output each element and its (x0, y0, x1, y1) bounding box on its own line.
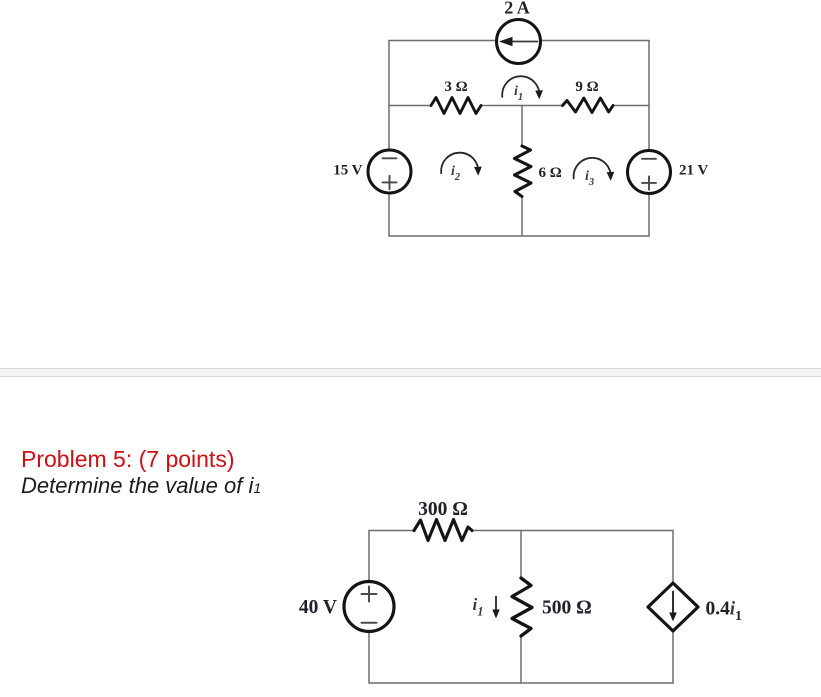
wire middle vertical lower (520, 636, 522, 683)
wire middle horizontal center (481, 105, 562, 107)
wire top-right segment (541, 40, 649, 42)
svg-text:i3: i3 (585, 169, 594, 188)
wire top segment right (472, 530, 673, 532)
resistor 9ohm (563, 98, 614, 113)
15V minus sign (383, 157, 397, 159)
wire bottom (369, 682, 673, 684)
21V plus sign (642, 176, 656, 189)
wire middle vertical upper (521, 106, 523, 147)
svg-text:9 Ω: 9 Ω (575, 79, 598, 95)
21V minus sign (642, 158, 656, 160)
wire right vertical upper (672, 531, 674, 584)
wire left vertical upper (388, 41, 390, 150)
svg-text:40 V: 40 V (299, 597, 337, 618)
voltage source 21V circle (628, 151, 671, 194)
wire top-left segment (389, 40, 496, 42)
voltage source 40V circle (344, 582, 394, 632)
svg-text:2 A: 2 A (504, 0, 530, 18)
svg-text:0.4i1: 0.4i1 (706, 599, 743, 625)
svg-text:i1: i1 (473, 595, 484, 619)
40V plus sign (362, 587, 377, 602)
wire right vertical upper (648, 41, 650, 151)
resistor 300ohm (414, 520, 472, 541)
svg-text:3 Ω: 3 Ω (444, 79, 467, 95)
resistor 3ohm (431, 98, 481, 114)
current source 2A circle (497, 20, 541, 64)
dependent source arrow (669, 592, 677, 622)
svg-text:21 V: 21 V (679, 163, 708, 179)
svg-text:i1: i1 (514, 84, 523, 103)
svg-text:i2: i2 (451, 164, 461, 183)
wire left vertical lower (388, 194, 390, 237)
voltage source 15V circle (368, 150, 411, 193)
wire left vertical upper (368, 531, 370, 582)
15V plus sign (383, 176, 397, 189)
mesh arrow i1 (502, 76, 543, 99)
wire middle vertical lower (521, 197, 523, 237)
svg-text:6 Ω: 6 Ω (539, 165, 562, 181)
wire right vertical lower (648, 194, 650, 236)
heading: Determine the value of i1 (21, 475, 261, 499)
arrow i1 down (492, 597, 499, 619)
svg-text:15 V: 15 V (333, 163, 362, 179)
svg-text:500 Ω: 500 Ω (542, 598, 592, 619)
dependent source diamond (648, 583, 698, 631)
wire top segment left (369, 530, 414, 532)
40V minus sign (362, 622, 377, 624)
mesh arrow i2 (441, 153, 482, 176)
wire right vertical lower (672, 631, 674, 683)
wire middle horizontal right (613, 105, 649, 107)
wire left vertical lower (368, 632, 370, 683)
current source 2A arrow (499, 37, 538, 46)
wire middle horizontal left (389, 105, 431, 107)
resistor 6ohm (515, 146, 532, 197)
heading: Problem 5 (21, 448, 234, 471)
separator band (0, 368, 821, 378)
resistor 500ohm (512, 578, 532, 636)
wire middle vertical upper (520, 531, 522, 579)
mesh arrow i3 (574, 158, 615, 181)
svg-text:300 Ω: 300 Ω (418, 499, 468, 520)
wire bottom (389, 235, 649, 237)
